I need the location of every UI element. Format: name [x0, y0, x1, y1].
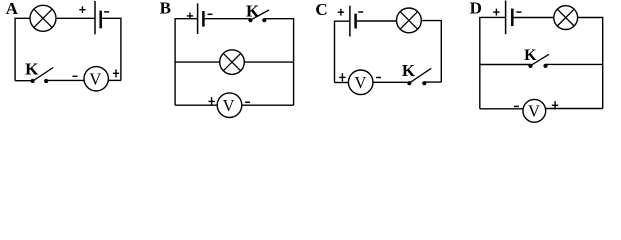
- lamp L1 (A): [30, 5, 56, 31]
- wire battery-to-corner (A): [102, 18, 121, 80]
- lamp L1 (B): [220, 50, 245, 75]
- wire bottom-left (B): [175, 104, 217, 106]
- lamp L1 (D): [554, 6, 578, 30]
- wire voltmeter-to-switch (C): [373, 81, 409, 83]
- svg-text:K: K: [246, 1, 260, 20]
- label K (D): [524, 47, 537, 64]
- label + voltmeter (D): [552, 101, 558, 109]
- label + voltmeter (A): [113, 69, 119, 77]
- svg-text:V: V: [528, 101, 540, 120]
- wire bottom-left (A): [15, 80, 32, 82]
- label - voltmeter (D): [514, 105, 519, 107]
- wire bottom-left (C): [335, 82, 349, 84]
- switch K (A): [30, 68, 53, 84]
- wire voltmeter-to-corner (B): [242, 104, 294, 106]
- wire lamp-to-corner (C): [421, 21, 441, 83]
- voltmeter V (B): [217, 93, 242, 118]
- label + battery (D): [493, 9, 499, 16]
- wire switch-to-corner (C): [424, 81, 441, 83]
- svg-text:V: V: [223, 96, 235, 115]
- wire lamp-to-battery (A): [56, 17, 95, 19]
- battery cell (A): [95, 1, 101, 34]
- svg-text:V: V: [89, 69, 101, 88]
- wire middle-right (D): [546, 63, 603, 65]
- wire top-left (A): [15, 18, 30, 80]
- label - voltmeter (B): [245, 101, 250, 103]
- wire switch-to-corner (B): [264, 19, 293, 106]
- voltmeter V (D): [523, 99, 546, 122]
- battery cell (B): [198, 3, 204, 34]
- battery cell (D): [506, 1, 513, 35]
- svg-text:K: K: [402, 61, 416, 80]
- svg-text:A: A: [6, 0, 19, 18]
- wire battery-to-lamp (D): [514, 17, 554, 19]
- label K (C): [402, 61, 416, 80]
- wire middle-left (D): [480, 64, 531, 66]
- svg-text:K: K: [25, 60, 39, 79]
- label + battery (A): [79, 6, 85, 13]
- wire top-left (C): [335, 21, 350, 82]
- label B: [160, 0, 171, 18]
- label - battery (D): [516, 11, 521, 13]
- label A: [6, 0, 19, 18]
- wire top-left (B): [175, 19, 198, 106]
- switch K (B): [248, 10, 269, 22]
- switch K (C): [407, 68, 431, 85]
- label - voltmeter (A): [73, 75, 78, 77]
- battery cell (C): [350, 6, 356, 37]
- label + voltmeter (B): [208, 97, 214, 105]
- wire middle-right (B): [244, 61, 293, 63]
- label - battery (C): [358, 11, 363, 13]
- label K (A): [25, 60, 39, 79]
- svg-text:V: V: [354, 73, 366, 92]
- svg-text:D: D: [470, 0, 482, 18]
- wire switch-to-voltmeter (A): [46, 79, 84, 81]
- voltmeter V (C): [348, 70, 373, 95]
- wire battery-to-lamp (C): [357, 20, 397, 22]
- label + battery (C): [338, 9, 344, 16]
- wire bottom-left (D): [480, 108, 523, 110]
- label - battery (B): [208, 13, 213, 15]
- label - voltmeter (C): [376, 77, 381, 79]
- svg-text:C: C: [315, 0, 327, 19]
- label + voltmeter (C): [339, 73, 345, 81]
- svg-text:B: B: [160, 0, 171, 18]
- label D: [470, 0, 482, 18]
- label K (B): [246, 1, 260, 20]
- label + battery (B): [187, 13, 193, 20]
- switch K (D): [528, 54, 549, 68]
- label - battery (A): [104, 11, 109, 13]
- wire battery-to-switch (B): [205, 18, 251, 20]
- lamp L1 (C): [397, 8, 422, 33]
- wire lamp-to-corner (D): [578, 18, 603, 109]
- wire voltmeter-to-corner (A): [108, 79, 121, 81]
- label C: [315, 0, 327, 19]
- wire middle-left (B): [175, 61, 220, 63]
- wire top-left (D): [480, 17, 506, 108]
- wire voltmeter-to-corner (D): [546, 108, 603, 110]
- svg-text:K: K: [524, 47, 537, 64]
- voltmeter V (A): [84, 67, 108, 91]
